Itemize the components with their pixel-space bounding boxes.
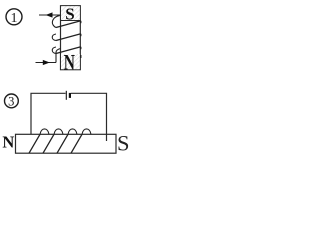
bar coil wrap arc 3 — [68, 129, 77, 134]
bar coil strand 3 — [57, 134, 68, 153]
coil exit hook to bottom lead — [56, 49, 61, 63]
svg-text:S: S — [117, 130, 130, 155]
battery long plate — [65, 91, 67, 100]
bar coil strand 4 — [71, 134, 82, 153]
svg-text:S: S — [65, 5, 74, 24]
bar coil strand 2 — [43, 134, 54, 153]
figure label badge 1 — [6, 9, 22, 26]
circuit top wire left segment — [31, 93, 66, 134]
figure label badge 3 — [4, 94, 18, 109]
svg-text:N: N — [2, 133, 14, 152]
bar core (horizontal) — [16, 134, 117, 153]
coil turn 2 right wrap tick — [80, 34, 82, 36]
bar coil wrap arc 1 — [40, 129, 49, 134]
coil turn 3 left arc — [52, 47, 56, 54]
battery short plate — [69, 93, 71, 98]
bar coil wrap arc 2 — [54, 129, 63, 134]
svg-text:1: 1 — [11, 11, 18, 26]
circuit top wire right segment — [71, 93, 107, 141]
top lead wire — [39, 14, 61, 16]
electromagnet core (vertical bar) — [61, 6, 81, 70]
connector from top lead into first coil turn (left arc) — [52, 16, 59, 28]
bar coil strand 1 — [29, 134, 40, 153]
pole S shaded box fill — [61, 6, 80, 20]
coil turn 2 left arc — [52, 34, 56, 41]
pole N shaded box fill — [61, 54, 80, 69]
coil turn 1 right wrap tick — [80, 21, 82, 23]
coil turn 3 front strand — [56, 47, 81, 54]
current arrow (right) on bottom lead — [43, 60, 50, 65]
coil turn 3 right wrap tick — [80, 47, 82, 49]
coil turn 4 right wrap tick — [80, 55, 82, 58]
bottom lead wire — [36, 62, 57, 64]
bar coil wrap arc 4 — [82, 129, 91, 134]
svg-text:N: N — [64, 51, 75, 75]
coil turn 2 front strand — [56, 34, 81, 41]
coil turn 1 front strand — [56, 21, 81, 28]
current arrow (left) on top lead — [46, 12, 53, 17]
pole divider under S — [61, 20, 81, 22]
svg-text:3: 3 — [8, 95, 14, 109]
